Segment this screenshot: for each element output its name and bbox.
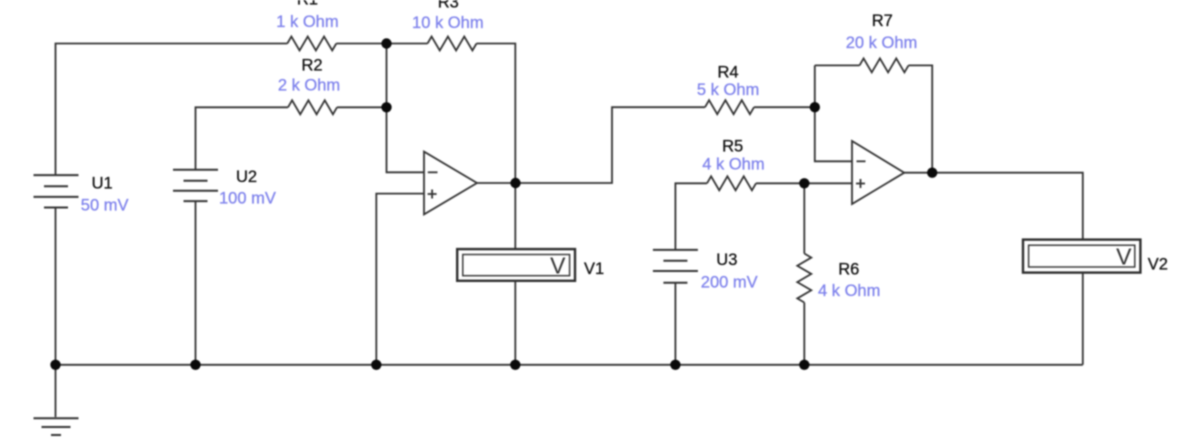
- wire R3 right down to output node: [477, 44, 516, 184]
- node C (R4/R7 junction): [810, 102, 820, 112]
- node D (R5/R6 junction): [799, 178, 809, 188]
- wire op-amp U4 non-inverting input down to ground rail: [376, 194, 424, 365]
- svg-text:R5: R5: [722, 137, 743, 155]
- junction ground rail / V1: [510, 360, 520, 370]
- battery U2: [173, 169, 218, 171]
- wire R2 right to node B: [337, 106, 387, 108]
- resistor R2: [288, 100, 337, 114]
- resistor R4: [705, 100, 754, 114]
- svg-text:R7: R7: [872, 12, 893, 30]
- wire node A to R3 left: [387, 43, 428, 45]
- svg-text:U1: U1: [92, 175, 113, 193]
- op-amp U5: [852, 141, 904, 204]
- svg-text:V2: V2: [1148, 256, 1168, 274]
- battery U1: [34, 174, 79, 176]
- battery U3: [653, 249, 698, 251]
- svg-text:5 k Ohm: 5 k Ohm: [697, 81, 759, 99]
- wire node A down through node B to op-amp U4 inverting input: [387, 44, 425, 173]
- wire R5 right through node D to op-amp U5 non-inverting input: [756, 182, 852, 184]
- resistor R6: [797, 254, 811, 303]
- voltmeter V2: [1023, 240, 1140, 273]
- wire ground rail: [56, 364, 1083, 366]
- wire R7 left: [815, 64, 860, 66]
- wire U3 top to R5 left: [675, 183, 707, 250]
- svg-text:R6: R6: [838, 261, 859, 279]
- resistor R5: [707, 176, 756, 190]
- svg-text:50 mV: 50 mV: [81, 197, 129, 215]
- node B (R2 junction): [381, 102, 391, 112]
- svg-text:R3: R3: [438, 0, 459, 12]
- op-amp U4: [424, 152, 477, 215]
- junction ground rail / U3: [670, 360, 680, 370]
- node op-amp U5 output junction: [927, 168, 937, 178]
- wire R4 right to node C: [754, 106, 815, 108]
- svg-text:V: V: [550, 253, 566, 279]
- wire R6 bottom to ground rail: [803, 303, 805, 365]
- svg-text:100 mV: 100 mV: [219, 190, 276, 208]
- wire node C vertical to op-amp U5 inverting input: [815, 65, 852, 161]
- wire U2 bottom to ground rail: [195, 201, 197, 365]
- junction ground rail / R6: [799, 360, 809, 370]
- svg-text:4 k Ohm: 4 k Ohm: [702, 156, 764, 174]
- voltmeter V1: [457, 249, 575, 281]
- svg-text:V: V: [1116, 244, 1132, 270]
- node op-amp U4 output junction: [510, 178, 520, 188]
- svg-text:U2: U2: [236, 168, 257, 186]
- wire output node down to voltmeter V1: [514, 183, 516, 249]
- svg-text:R4: R4: [717, 63, 738, 81]
- svg-text:R2: R2: [301, 57, 322, 75]
- wire U1 top to R1 left: [56, 44, 288, 176]
- resistor R7: [860, 58, 909, 72]
- ground: [34, 417, 79, 419]
- svg-text:4 k Ohm: 4 k Ohm: [818, 282, 880, 300]
- wire ground stem: [55, 365, 57, 417]
- resistor R1: [287, 37, 336, 51]
- wire op-amp U4 output right and up to R4: [477, 107, 705, 183]
- svg-text:1 k Ohm: 1 k Ohm: [276, 13, 338, 31]
- svg-text:20 k Ohm: 20 k Ohm: [846, 34, 918, 52]
- resistor R3: [428, 37, 477, 51]
- wire R7 right down to op-amp U5 output node: [909, 65, 933, 172]
- wire U3 bottom to ground rail: [674, 283, 676, 365]
- svg-text:V1: V1: [584, 260, 604, 278]
- wire node D down to R6: [803, 183, 805, 253]
- svg-text:10 k Ohm: 10 k Ohm: [412, 14, 484, 32]
- wire R1 right to node A: [336, 43, 386, 45]
- wire U2 top to R2 left: [196, 107, 289, 170]
- svg-text:U3: U3: [716, 251, 737, 269]
- wire U1 bottom to ground rail: [55, 208, 57, 365]
- node A (R1/R3 junction): [381, 38, 391, 48]
- wire voltmeter V2 bottom to ground rail: [1082, 273, 1084, 365]
- wire op-amp U5 output to V2 top: [904, 173, 1083, 240]
- svg-text:200 mV: 200 mV: [701, 274, 758, 292]
- junction ground rail / U4 non-inverting: [371, 360, 381, 370]
- svg-text:2 k Ohm: 2 k Ohm: [278, 76, 340, 94]
- junction ground rail / U2: [190, 360, 200, 370]
- wire voltmeter V1 bottom to ground rail: [514, 281, 516, 365]
- junction ground rail / U1: [50, 360, 60, 370]
- svg-text:R1: R1: [297, 0, 318, 9]
